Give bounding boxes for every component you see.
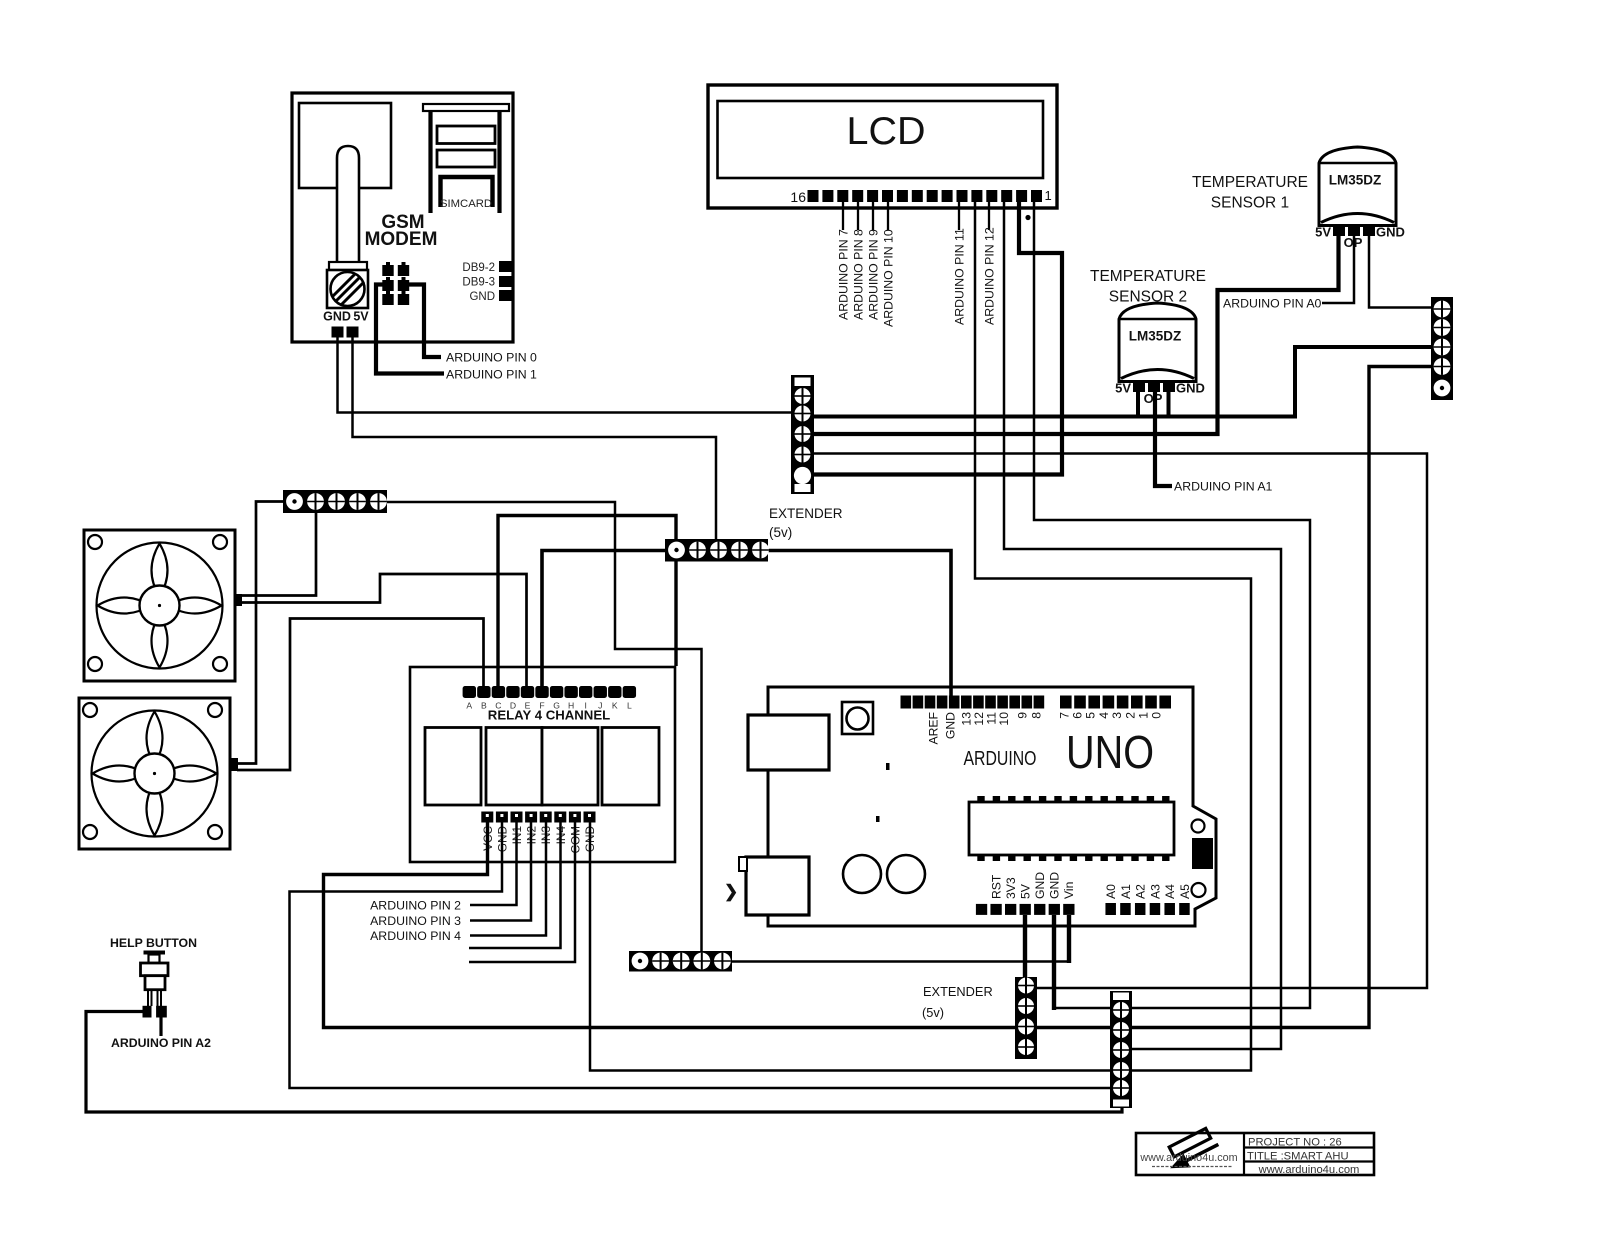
Arduino power header labels bbox=[989, 872, 1076, 899]
svg-text:B: B bbox=[481, 701, 487, 711]
UNO label bbox=[1066, 726, 1154, 778]
ARDUINO PIN 4 label bbox=[370, 929, 461, 943]
fan 2 bbox=[79, 698, 230, 849]
svg-text:ARDUINO PIN 1: ARDUINO PIN 1 bbox=[446, 368, 537, 382]
TEMPERATURE SENSOR 2 label bbox=[1090, 268, 1206, 306]
svg-text:www.arduino4u.com: www.arduino4u.com bbox=[1139, 1152, 1237, 1164]
Arduino UNO board outline bbox=[768, 687, 1216, 926]
wire extender A to strip B bbox=[386, 502, 702, 952]
relay bottom pin labels VCC GND IN1-IN4 COM GND bbox=[481, 826, 597, 854]
EXTENDER (5v) label top bbox=[769, 506, 843, 540]
wire strip B to arduino Vin bbox=[731, 960, 1069, 963]
svg-text:TITLE :SMART AHU: TITLE :SMART AHU bbox=[1247, 1151, 1349, 1163]
stamp www.arduino4u.com right bbox=[1258, 1164, 1360, 1176]
TEMPERATURE SENSOR 1 label bbox=[1192, 174, 1308, 212]
wire sensor2 5V leg bbox=[1136, 392, 1140, 417]
stamp www.arduino4u.com left bbox=[1139, 1152, 1237, 1167]
Arduino left edge arrow mark bbox=[724, 882, 738, 902]
wire GSM 5V to extender strip bbox=[353, 337, 717, 540]
temperature sensor 2 LM35DZ body bbox=[1119, 303, 1196, 392]
wire relay GND to extender B bbox=[290, 822, 1123, 1088]
TITLE :SMART AHU bbox=[1247, 1151, 1349, 1163]
svg-text:5: 5 bbox=[1084, 712, 1098, 719]
ARDUINO PIN 3 label bbox=[370, 914, 461, 928]
wire LCD pin to arduino pin 8 label bbox=[857, 202, 859, 230]
svg-text:3V3: 3V3 bbox=[1004, 877, 1018, 899]
svg-text:EXTENDER: EXTENDER bbox=[923, 984, 993, 999]
svg-text:SIMCARD: SIMCARD bbox=[440, 198, 492, 210]
Arduino digital header labels 7..0 bbox=[1057, 712, 1163, 719]
help button bbox=[141, 951, 169, 1018]
Arduino small pads bbox=[876, 763, 890, 822]
ARDUINO label bbox=[964, 747, 1037, 770]
svg-text:GND: GND bbox=[323, 310, 351, 324]
wire GSM GND to extender bbox=[338, 337, 792, 413]
svg-text:PROJECT NO : 26: PROJECT NO : 26 bbox=[1248, 1137, 1342, 1149]
wire sensor2 OP to pin A1 label bbox=[1155, 392, 1172, 486]
svg-text:A4: A4 bbox=[1163, 884, 1177, 899]
svg-text:5V: 5V bbox=[1315, 225, 1331, 240]
svg-text:(5v): (5v) bbox=[769, 525, 792, 540]
svg-text:5V: 5V bbox=[1018, 883, 1032, 899]
extender strip B (bottom horizontal) bbox=[629, 951, 732, 972]
wire sensor1 GND to strip bbox=[1369, 236, 1431, 308]
wire extender c2 to sensor2 and strip bbox=[813, 347, 1431, 417]
svg-text:7: 7 bbox=[1057, 712, 1071, 719]
svg-text:GND: GND bbox=[1048, 872, 1062, 899]
wire LCD pin to arduino pin 7 label bbox=[842, 202, 844, 230]
svg-text:GND: GND bbox=[1376, 225, 1405, 240]
Arduino digital header AREF..8 bbox=[901, 696, 1045, 709]
wire LCD pin 1 to arduino GND rail bbox=[1034, 202, 1310, 1008]
GSM SIMCARD holder bbox=[423, 104, 509, 213]
svg-text:ARDUINO PIN 0: ARDUINO PIN 0 bbox=[446, 351, 537, 365]
DB9 labels bbox=[462, 262, 495, 303]
Arduino USB connector bbox=[748, 715, 829, 770]
svg-text:(5v): (5v) bbox=[922, 1005, 944, 1020]
svg-text:ARDUINO PIN 10: ARDUINO PIN 10 bbox=[881, 229, 895, 327]
svg-text:1: 1 bbox=[1137, 712, 1151, 719]
wire relay VCC to strip c4 rail bbox=[324, 367, 1432, 1028]
svg-text:A: A bbox=[466, 701, 472, 711]
ARDUINO PIN 10 label bbox=[881, 229, 895, 327]
svg-text:SENSOR 1: SENSOR 1 bbox=[1211, 195, 1289, 212]
wire fan2 to extender A bbox=[237, 502, 284, 764]
svg-text:A1: A1 bbox=[1119, 884, 1133, 899]
relay bottom pin header bbox=[481, 812, 595, 823]
svg-text:EXTENDER: EXTENDER bbox=[769, 506, 843, 521]
wire LCD pin 2 to extender c5 bbox=[813, 202, 1062, 475]
svg-text:ARDUINO PIN A2: ARDUINO PIN A2 bbox=[111, 1036, 211, 1050]
ARDUINO PIN A2 label bbox=[111, 1036, 211, 1050]
svg-text:www.arduino4u.com: www.arduino4u.com bbox=[1258, 1164, 1360, 1176]
svg-text:6: 6 bbox=[1071, 712, 1085, 719]
svg-text:UNO: UNO bbox=[1066, 726, 1154, 778]
sensor 2 LM35DZ label bbox=[1129, 329, 1182, 344]
svg-text:SENSOR 2: SENSOR 2 bbox=[1109, 289, 1187, 306]
svg-text:2: 2 bbox=[1123, 712, 1137, 719]
wire GSM to arduino pin 0 bbox=[409, 285, 441, 358]
Arduino digital header labels bbox=[926, 712, 1043, 745]
wire extender c4 to 5v return bbox=[813, 454, 1427, 989]
wire relay IN1 to arduino pin 2 label bbox=[470, 822, 517, 905]
svg-text:RELAY 4 CHANNEL: RELAY 4 CHANNEL bbox=[488, 708, 610, 723]
wire arduino 5V drop to extender 1 bbox=[1023, 915, 1027, 1057]
junction dot bbox=[1025, 215, 1030, 220]
wire help button to pin A2 label bbox=[159, 1018, 162, 1037]
wire help button to extender B bottom bbox=[86, 1012, 1122, 1113]
svg-text:LM35DZ: LM35DZ bbox=[1129, 329, 1182, 344]
wire fan2 to relay pin B bbox=[237, 619, 484, 771]
sensor 1 pin labels 5V OP GND bbox=[1315, 225, 1405, 251]
svg-text:ARDUINO PIN 12: ARDUINO PIN 12 bbox=[982, 227, 996, 325]
svg-text:ARDUINO PIN 8: ARDUINO PIN 8 bbox=[851, 229, 865, 320]
ARDUINO PIN 1 label bbox=[446, 368, 537, 382]
fan 1 bbox=[84, 530, 235, 681]
Arduino analog header labels bbox=[1104, 884, 1192, 899]
wire LCD pin to arduino pin 12 label bbox=[988, 202, 990, 230]
Arduino IC chip bbox=[969, 796, 1174, 861]
wire LCD pin to arduino pin 11 label bbox=[958, 202, 960, 230]
Arduino power header pins bbox=[976, 904, 1075, 915]
svg-text:A5: A5 bbox=[1178, 884, 1192, 899]
svg-text:DB9-3: DB9-3 bbox=[462, 277, 495, 289]
wire relay IN4 stub bbox=[469, 822, 561, 948]
HELP BUTTON label bbox=[110, 936, 197, 950]
svg-text:ARDUINO PIN 11: ARDUINO PIN 11 bbox=[952, 228, 966, 325]
temperature sensor 1 LM35DZ body bbox=[1319, 147, 1396, 236]
SIMCARD label bbox=[440, 198, 492, 210]
wire arduino Vin drop bbox=[1067, 915, 1071, 963]
extender 1 (vertical, bottom) bbox=[1015, 977, 1037, 1059]
GSM antenna base box bbox=[299, 103, 391, 188]
project stamp box bbox=[1136, 1133, 1374, 1175]
wire LCD pin 3 to extender B bbox=[1004, 202, 1281, 1049]
Arduino reset button bbox=[842, 702, 873, 734]
LCD module box bbox=[708, 85, 1057, 208]
svg-text:MODEM: MODEM bbox=[365, 229, 438, 250]
GSM DB9 GND pin bbox=[499, 290, 512, 301]
svg-text:A3: A3 bbox=[1148, 884, 1162, 899]
svg-text:5V: 5V bbox=[353, 310, 369, 324]
svg-text:LM35DZ: LM35DZ bbox=[1329, 173, 1382, 188]
svg-text:L: L bbox=[627, 701, 632, 711]
extender 2 (vertical, bottom right) bbox=[1110, 991, 1132, 1108]
PROJECT NO : 26 bbox=[1248, 1137, 1342, 1149]
svg-text:HELP BUTTON: HELP BUTTON bbox=[110, 936, 197, 950]
GSM MODEM label bbox=[365, 212, 438, 250]
svg-text:10: 10 bbox=[997, 712, 1011, 726]
wire sensor1 OP to pin A0 label bbox=[1322, 236, 1354, 303]
LCD label bbox=[847, 110, 926, 153]
LCD screen inner box bbox=[718, 101, 1044, 178]
svg-text:5V: 5V bbox=[1115, 381, 1131, 396]
DB9-3 pin bbox=[499, 276, 512, 287]
fan 2 connector bbox=[229, 758, 238, 771]
svg-text:A2: A2 bbox=[1134, 884, 1148, 899]
svg-text:TEMPERATURE: TEMPERATURE bbox=[1192, 174, 1308, 191]
svg-text:ARDUINO PIN 9: ARDUINO PIN 9 bbox=[866, 229, 880, 320]
svg-text:K: K bbox=[612, 701, 618, 711]
svg-text:ARDUINO PIN A1: ARDUINO PIN A1 bbox=[1174, 480, 1273, 494]
ARDUINO PIN 8 label bbox=[851, 229, 865, 320]
GSM GND 5V labels bbox=[323, 310, 369, 324]
LCD pin header 16..1 bbox=[808, 190, 1043, 202]
GSM antenna mount plate bbox=[329, 262, 367, 270]
svg-text:ARDUINO PIN 3: ARDUINO PIN 3 bbox=[370, 914, 461, 928]
svg-text:RST: RST bbox=[989, 874, 1003, 899]
ARDUINO PIN 11 label bbox=[952, 228, 966, 325]
svg-text:9: 9 bbox=[1015, 712, 1029, 719]
svg-text:GND: GND bbox=[1033, 872, 1047, 899]
ARDUINO PIN 12 label bbox=[982, 227, 996, 325]
wire relay pin C loop bbox=[498, 516, 676, 688]
Arduino mounting holes and ICSP bbox=[1192, 820, 1214, 898]
wire relay pin F to arduino GND bbox=[542, 551, 951, 698]
Arduino capacitors bbox=[843, 855, 925, 893]
svg-text:1: 1 bbox=[1045, 188, 1052, 203]
ARDUINO PIN 0 label bbox=[446, 351, 537, 365]
wire relay IN2 to arduino pin 3 label bbox=[470, 822, 531, 921]
relay top pin letter labels bbox=[466, 701, 632, 711]
svg-text:ARDUINO PIN 2: ARDUINO PIN 2 bbox=[370, 899, 461, 913]
Arduino analog header pins A0-A5 bbox=[1105, 903, 1189, 915]
ARDUINO PIN A0 label bbox=[1223, 297, 1322, 311]
GSM 5V pin bbox=[347, 327, 359, 338]
svg-text:4: 4 bbox=[1097, 712, 1111, 719]
svg-text:AREF: AREF bbox=[926, 712, 940, 745]
LCD pin 16 label bbox=[790, 189, 806, 205]
Arduino digital header 7..0 bbox=[1060, 696, 1171, 709]
sensor 2 pin labels 5V OP GND bbox=[1115, 381, 1205, 407]
svg-text:❯: ❯ bbox=[724, 882, 738, 902]
sensor 1 LM35DZ label bbox=[1329, 173, 1382, 188]
EXTENDER (5v) label bottom bbox=[922, 984, 993, 1020]
svg-text:A0: A0 bbox=[1104, 884, 1118, 899]
ARDUINO PIN A1 label bbox=[1174, 480, 1273, 494]
extender strip C (horizontal, mid) bbox=[665, 539, 769, 562]
wire fan1 to extender A bbox=[240, 512, 316, 596]
GSM serial pin grid (2x3) bbox=[382, 262, 409, 305]
svg-text:ARDUINO PIN 7: ARDUINO PIN 7 bbox=[836, 229, 850, 320]
wire relay IN3 to arduino pin 4 label bbox=[470, 822, 546, 936]
wire extender c3 to sensor1 5V bbox=[813, 236, 1339, 434]
relay boxes bbox=[425, 728, 659, 806]
GSM modem box bbox=[292, 93, 513, 342]
Arduino power connector bbox=[739, 857, 809, 915]
connector strip right bbox=[1431, 297, 1453, 400]
svg-text:DB9-2: DB9-2 bbox=[462, 262, 495, 274]
wire relay COM to Vin rail bbox=[469, 822, 575, 962]
GSM GND pin bbox=[332, 327, 344, 338]
ARDUINO PIN 9 label bbox=[866, 229, 880, 320]
svg-text:ARDUINO PIN A0: ARDUINO PIN A0 bbox=[1223, 297, 1322, 311]
GSM antenna stem bbox=[337, 146, 359, 268]
wire LCD pin to arduino pin 10 label bbox=[887, 202, 889, 230]
svg-text:3: 3 bbox=[1110, 712, 1124, 719]
fan 1 connector bbox=[234, 594, 242, 606]
ARDUINO PIN 2 label bbox=[370, 899, 461, 913]
svg-text:Vin: Vin bbox=[1062, 882, 1076, 899]
svg-text:8: 8 bbox=[1029, 712, 1043, 719]
DB9-2 pin bbox=[499, 261, 512, 272]
wire fan1 to relay pin E bbox=[240, 574, 527, 687]
svg-text:ARDUINO: ARDUINO bbox=[964, 747, 1037, 770]
svg-text:GND: GND bbox=[1176, 381, 1205, 396]
RELAY 4 CHANNEL label bbox=[488, 708, 610, 723]
svg-text:TEMPERATURE: TEMPERATURE bbox=[1090, 268, 1206, 285]
extender strip A (top-left horizontal) bbox=[283, 490, 387, 513]
LCD pin 1 label bbox=[1045, 188, 1052, 203]
relay 4 channel board box bbox=[410, 667, 675, 862]
wire GSM to arduino pin 1 bbox=[376, 285, 444, 374]
wire sensor2 GND leg bbox=[1167, 392, 1171, 417]
svg-text:GND: GND bbox=[469, 291, 495, 303]
svg-text:LCD: LCD bbox=[847, 110, 926, 153]
svg-text:0: 0 bbox=[1150, 712, 1164, 719]
extender 5v (vertical, top) bbox=[791, 375, 814, 494]
wire LCD pin 5 to relay GND rail bbox=[590, 202, 1251, 1071]
GSM antenna screw mount bbox=[327, 270, 368, 308]
ARDUINO PIN 7 label bbox=[836, 229, 850, 320]
wire arduino GND drop to rail bbox=[1052, 915, 1056, 1010]
svg-text:16: 16 bbox=[790, 189, 806, 205]
svg-text:ARDUINO PIN 4: ARDUINO PIN 4 bbox=[370, 929, 461, 943]
relay top pin header A-L bbox=[463, 686, 636, 698]
wire LCD pin to arduino pin 9 label bbox=[872, 202, 874, 230]
stamp logo arrow bbox=[1166, 1127, 1221, 1172]
svg-text:GND: GND bbox=[943, 712, 957, 739]
